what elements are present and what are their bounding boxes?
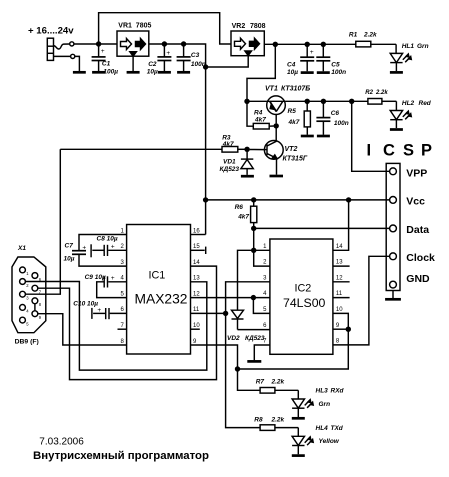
svg-text:12: 12 bbox=[193, 291, 200, 297]
svg-text:IC2: IC2 bbox=[295, 283, 312, 295]
ground IC2 pin7 bbox=[247, 345, 270, 361]
wire IC2 pin11 stub bbox=[333, 297, 350, 299]
wire DB9 pin7 to IC1 pin14 bbox=[38, 266, 217, 380]
svg-text:X1: X1 bbox=[17, 245, 26, 252]
svg-text:+: + bbox=[111, 275, 115, 282]
svg-text:HL3: HL3 bbox=[316, 387, 329, 394]
svg-text:10: 10 bbox=[336, 307, 343, 313]
wire DB9 pin3 to R3 bbox=[25, 149, 60, 294]
svg-text:R4: R4 bbox=[254, 109, 263, 116]
ground IC1 pin15 bbox=[191, 247, 206, 254]
svg-text:14: 14 bbox=[193, 260, 200, 266]
node input junction bbox=[96, 41, 101, 46]
node C3 junction bbox=[181, 41, 186, 46]
ground HL4 bbox=[292, 454, 305, 457]
ground C6 bbox=[317, 135, 330, 138]
label ICSP bbox=[367, 141, 433, 159]
transistor VT1 KT3107B bbox=[265, 85, 310, 123]
svg-text:+: + bbox=[101, 48, 105, 55]
capacitor C6 100n bbox=[316, 99, 348, 135]
resistor R2 2.2k bbox=[365, 90, 396, 104]
svg-text:HL2: HL2 bbox=[402, 100, 415, 107]
svg-text:4k7: 4k7 bbox=[237, 213, 249, 220]
node C5 junction bbox=[321, 42, 326, 47]
svg-text:2.2k: 2.2k bbox=[271, 378, 285, 385]
ground input bbox=[73, 71, 86, 74]
LED HL4 TXd Yellow bbox=[292, 425, 344, 455]
svg-text:74LS00: 74LS00 bbox=[283, 296, 326, 310]
svg-text:C3: C3 bbox=[191, 52, 200, 59]
node IC2 pin1 junction bbox=[251, 248, 256, 253]
node 5V distribution junction bbox=[203, 197, 208, 202]
svg-text:2.2k: 2.2k bbox=[363, 32, 377, 39]
svg-text:C7: C7 bbox=[65, 242, 74, 249]
node VT1 emitter rail junction bbox=[244, 99, 249, 104]
node C2 junction bbox=[162, 41, 167, 46]
svg-text:+: + bbox=[166, 50, 170, 57]
svg-text:+: + bbox=[97, 307, 101, 314]
svg-text:Grn: Grn bbox=[417, 43, 429, 50]
switch SA1 bbox=[54, 42, 74, 49]
svg-text:КТ315Г: КТ315Г bbox=[283, 155, 308, 162]
wire IC1 pin10 stub bbox=[191, 328, 200, 330]
node VR2 output junction bbox=[273, 42, 278, 47]
svg-text:+: + bbox=[310, 49, 314, 56]
svg-text:14: 14 bbox=[336, 244, 343, 250]
svg-text:R6: R6 bbox=[235, 204, 244, 211]
node VT2 base junction bbox=[244, 147, 264, 152]
label VPP bbox=[406, 167, 427, 179]
wire IC1 pin7 stub bbox=[118, 328, 127, 330]
svg-text:VR2: VR2 bbox=[232, 23, 246, 30]
svg-text:C4: C4 bbox=[287, 61, 296, 68]
wire IC2 pin3 down bbox=[226, 282, 270, 314]
svg-text:R7: R7 bbox=[256, 378, 265, 385]
transistor VT2 KT315G bbox=[264, 126, 307, 175]
regulator VR2 7808 bbox=[231, 23, 266, 56]
wire 5V to Vcc line bbox=[206, 199, 390, 201]
connector ICSP bbox=[386, 163, 400, 290]
svg-text:КД523: КД523 bbox=[220, 166, 240, 173]
ground HL1 bbox=[390, 71, 403, 74]
LED HL3 RXd Grn bbox=[292, 387, 344, 417]
wire IC2 pin2 tie bbox=[254, 250, 270, 266]
wire 13V rail after VR2 bbox=[264, 43, 356, 45]
ground HL2 bbox=[390, 128, 403, 131]
svg-text:11: 11 bbox=[336, 291, 343, 297]
label Clock bbox=[406, 252, 435, 264]
svg-text:10µ: 10µ bbox=[287, 69, 298, 76]
svg-text:R5: R5 bbox=[288, 108, 297, 115]
svg-text:7805: 7805 bbox=[136, 23, 152, 30]
wire IC1 pin16 to 5V bbox=[191, 234, 206, 236]
wire IC2 pin1 tie bbox=[254, 249, 270, 251]
svg-text:VT2: VT2 bbox=[285, 146, 298, 153]
resistor R4 4k7 bbox=[247, 101, 274, 129]
label +16...24v bbox=[28, 26, 74, 37]
svg-text:C9 10µ: C9 10µ bbox=[85, 274, 106, 281]
svg-text:VT1: VT1 bbox=[265, 85, 278, 92]
ground HL3 bbox=[292, 417, 305, 420]
wire VR2 ground link bbox=[206, 56, 249, 67]
wire IC2 pin8 to Clock bbox=[333, 256, 390, 345]
node Vcc junction bbox=[346, 197, 351, 202]
svg-text:RXd: RXd bbox=[331, 387, 345, 394]
wire input bottom terminal bbox=[54, 54, 80, 71]
IC1 MAX232 bbox=[120, 225, 200, 355]
svg-text:GND: GND bbox=[406, 273, 430, 285]
svg-text:2.2k: 2.2k bbox=[271, 416, 285, 423]
svg-text:10µ: 10µ bbox=[147, 69, 158, 76]
resistor R8 2.2k bbox=[254, 416, 298, 430]
ground VD1 bbox=[241, 175, 254, 178]
label Data bbox=[406, 224, 429, 236]
svg-text:10µ: 10µ bbox=[64, 256, 75, 263]
svg-text:HL4: HL4 bbox=[316, 425, 329, 432]
svg-text:TXd: TXd bbox=[331, 425, 344, 432]
svg-text:Red: Red bbox=[419, 100, 432, 107]
diode VD1 KD523 bbox=[220, 152, 254, 175]
capacitor C3 bbox=[177, 44, 206, 71]
regulator VR1 7805 bbox=[117, 23, 151, 57]
wire R6 to IC2 pins 1-2 bbox=[253, 228, 255, 250]
svg-text:VPP: VPP bbox=[406, 167, 427, 179]
svg-text:VD2: VD2 bbox=[227, 335, 240, 342]
capacitor C4 bbox=[287, 44, 314, 76]
svg-text:VD1: VD1 bbox=[223, 159, 236, 166]
svg-text:C8 10µ: C8 10µ bbox=[97, 236, 118, 243]
svg-text:100n: 100n bbox=[334, 120, 349, 127]
node pin11 junction bbox=[223, 311, 228, 316]
svg-text:Grn: Grn bbox=[319, 401, 331, 408]
connector X1 DB9 bbox=[12, 245, 46, 345]
ground C3 bbox=[177, 71, 190, 74]
wire VT1 emitter rail bbox=[247, 100, 267, 102]
ground VT2 bbox=[270, 175, 284, 178]
svg-text:R2: R2 bbox=[365, 90, 373, 96]
svg-text:2.2k: 2.2k bbox=[375, 90, 388, 96]
svg-text:MAX232: MAX232 bbox=[135, 292, 188, 307]
label Vcc bbox=[406, 196, 425, 208]
node pin9 net junction bbox=[235, 366, 240, 371]
LED HL1 Grn bbox=[390, 43, 428, 71]
diode VD2 KD523 bbox=[227, 310, 265, 342]
svg-text:C5: C5 bbox=[331, 61, 340, 68]
wire VPP to ICSP bbox=[352, 101, 390, 171]
ground C5 bbox=[317, 71, 330, 74]
ground R5 bbox=[301, 135, 314, 138]
wire IC2 pin14 to Vcc bbox=[333, 200, 349, 250]
wire IC1 pin11 bbox=[191, 312, 226, 314]
svg-text:C10 10µ: C10 10µ bbox=[73, 301, 98, 308]
label date bbox=[39, 437, 84, 448]
svg-text:13: 13 bbox=[336, 260, 343, 266]
LED HL2 Red bbox=[390, 100, 432, 128]
svg-text:КД523: КД523 bbox=[245, 335, 265, 342]
svg-text:R1: R1 bbox=[349, 32, 358, 39]
wire pin9 net to IC2 pins 9-10 bbox=[238, 313, 349, 369]
IC2 74LS00 bbox=[263, 239, 343, 354]
svg-text:Data: Data bbox=[406, 224, 429, 236]
svg-text:+: + bbox=[111, 243, 115, 250]
svg-text:4k7: 4k7 bbox=[288, 119, 300, 126]
svg-text:16: 16 bbox=[193, 228, 200, 234]
svg-text:7808: 7808 bbox=[250, 23, 266, 30]
wire IC2 pin12 stub bbox=[333, 281, 350, 283]
svg-text:11: 11 bbox=[193, 307, 200, 313]
node R6 top junction bbox=[251, 197, 256, 202]
capacitor C10 10u with ground bbox=[73, 301, 126, 320]
label title bbox=[33, 450, 209, 462]
svg-text:12: 12 bbox=[336, 275, 343, 281]
svg-text:C2: C2 bbox=[148, 61, 157, 68]
ground C4 bbox=[301, 71, 314, 74]
svg-text:R8: R8 bbox=[254, 416, 263, 423]
svg-text:+ 16....24v: + 16....24v bbox=[28, 26, 74, 37]
wire top bypass rail bbox=[99, 13, 231, 44]
ground ICSP bbox=[385, 291, 401, 300]
svg-text:КТ3107Б: КТ3107Б bbox=[281, 85, 310, 92]
resistor R5 4k7 bbox=[288, 99, 311, 135]
capacitor C7 10u bbox=[64, 235, 127, 267]
label GND bbox=[406, 273, 430, 285]
svg-text:4k7: 4k7 bbox=[254, 117, 266, 124]
svg-text:IC1: IC1 bbox=[149, 269, 166, 281]
ground C1 bbox=[92, 71, 105, 74]
node C4 junction bbox=[305, 42, 310, 47]
wire pin11 net down to R8 bbox=[226, 313, 261, 427]
node IC2 pin9 junction bbox=[333, 327, 351, 332]
svg-text:Vcc: Vcc bbox=[406, 196, 425, 208]
wire IC2 pins12 to VD2 anode bbox=[238, 250, 254, 310]
node VPP branch junction bbox=[349, 99, 354, 104]
wire IC1 pin12 to IC2 pins 4-5 bbox=[191, 295, 270, 314]
wire VD2 cathode to IC2 pin6 bbox=[238, 329, 270, 331]
capacitor C1 bbox=[92, 44, 119, 76]
power connector X plug bbox=[47, 38, 53, 60]
wire 13V jog down to VT1 emitter rail bbox=[247, 44, 275, 101]
ground C2 bbox=[158, 71, 171, 74]
wire DB9 pins 8-9 link bbox=[34, 304, 36, 311]
svg-text:100n: 100n bbox=[331, 69, 346, 76]
wire input rail to VR1 bbox=[74, 43, 117, 45]
svg-text:7.03.2006: 7.03.2006 bbox=[39, 437, 84, 448]
capacitor C5 bbox=[316, 44, 346, 76]
svg-text:C1: C1 bbox=[102, 61, 111, 68]
svg-text:HL1: HL1 bbox=[402, 43, 415, 50]
wire IC1 pin9 down bbox=[191, 345, 238, 369]
svg-text:+: + bbox=[82, 245, 86, 252]
wire 5V rail after VR1 bbox=[149, 44, 206, 235]
ground VR1 bbox=[127, 71, 140, 74]
capacitor C9 10u bbox=[85, 274, 127, 297]
svg-text:Yellow: Yellow bbox=[319, 438, 340, 445]
resistor R6 4k7 bbox=[235, 200, 257, 229]
resistor R3 4k7 bbox=[60, 134, 244, 152]
svg-text:Clock: Clock bbox=[406, 252, 435, 264]
wire DB9 pin2 to IC1 pin13 bbox=[25, 282, 206, 371]
resistor R1 2.2k bbox=[349, 32, 396, 47]
capacitor C8 10u with ground bbox=[91, 236, 127, 258]
resistor R7 2.2k bbox=[238, 369, 299, 393]
node Data line junction bbox=[251, 226, 256, 231]
wire Data line to ICSP bbox=[254, 227, 390, 229]
wire IC2 pin13 stub bbox=[333, 265, 350, 267]
svg-text:VR1: VR1 bbox=[118, 23, 132, 30]
node VT1 base junction bbox=[274, 123, 279, 128]
svg-text:Внутрисхемный программатор: Внутрисхемный программатор bbox=[33, 450, 209, 462]
wire VR1 ground lead bbox=[132, 56, 134, 71]
svg-text:13: 13 bbox=[193, 276, 200, 282]
svg-text:100µ: 100µ bbox=[103, 69, 118, 76]
node 5V to VR2 gnd junction bbox=[203, 64, 208, 69]
svg-text:10: 10 bbox=[193, 323, 200, 329]
capacitor C2 bbox=[147, 44, 172, 76]
wire DB9 pin9 to IC1 pin8 bbox=[38, 314, 127, 345]
wire VT1 collector to R5 bbox=[285, 100, 368, 102]
svg-text:C6: C6 bbox=[331, 110, 340, 117]
svg-text:15: 15 bbox=[193, 244, 200, 250]
svg-text:DB9 (F): DB9 (F) bbox=[15, 338, 39, 345]
